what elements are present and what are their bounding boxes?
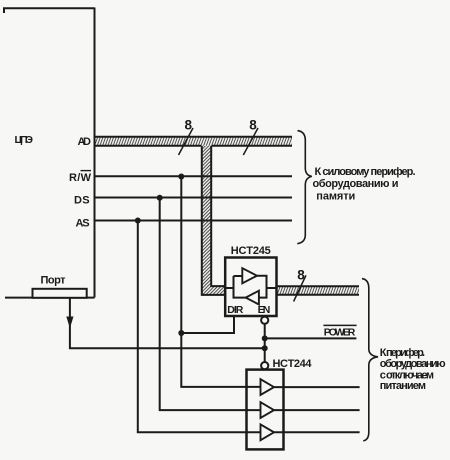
svg-text:питанием: питанием: [380, 380, 426, 392]
CPU bottom edge: [5, 297, 95, 299]
junction dot AS: [135, 218, 141, 224]
buffer 3 triangle: [261, 424, 275, 440]
bus width marker 8 (output slash): [294, 275, 306, 301]
svg-text:8: 8: [249, 117, 257, 132]
brace: to power peripherals group: [297, 131, 312, 244]
junction dot DIR / R/W drop: [178, 330, 184, 336]
junction dot POWER / EN: [262, 335, 268, 341]
svg-text:POWER: POWER: [324, 327, 356, 339]
R/W line: [95, 175, 293, 177]
R/W drop wire to DIR and buffer 1: [181, 177, 260, 387]
svg-text:AS: AS: [76, 217, 90, 229]
HCT245 box U1: [225, 258, 276, 317]
svg-text:оборудованию и: оборудованию и: [313, 178, 399, 190]
svg-text:К силовому перифер.: К силовому перифер.: [315, 166, 416, 178]
brace: to switched-power peripherals group: [362, 279, 378, 441]
port output wire (down, arrow, then right to EN): [70, 298, 265, 348]
buffer 2 output line: [274, 409, 360, 411]
junction dot R/W: [178, 174, 184, 180]
svg-text:8: 8: [297, 267, 305, 282]
svg-text:R/W: R/W: [69, 172, 92, 184]
DS drop wire to buffer 2: [160, 198, 261, 411]
svg-text:памяти: памяти: [316, 191, 355, 203]
output bus 8-bit from HCT245: [277, 286, 360, 294]
buffer 1 triangle: [261, 379, 275, 395]
AD bus (8-bit address/data bus): [95, 137, 293, 146]
svg-text:ЦПЭ: ЦПЭ: [15, 134, 34, 146]
CPU top edge: [4, 8, 95, 13]
svg-text:EN: EN: [258, 304, 271, 316]
vertical bus drop with elbow stub to HCT245: [202, 146, 225, 295]
HCT245 transceiver symbol: loop wires: [225, 276, 276, 298]
HCT244 enable bubble (active low): [261, 362, 268, 369]
POWER line: [265, 337, 357, 339]
buffer 2 triangle: [261, 402, 275, 418]
svg-text:HCT244: HCT244: [273, 358, 313, 370]
DS line: [95, 197, 293, 199]
EN pin bubble (active low): [261, 317, 268, 324]
HCT244 box U2: [247, 370, 284, 450]
port box: [33, 289, 87, 298]
arrowhead on port wire: [66, 317, 73, 329]
EN wire down: [264, 324, 266, 362]
HCT245 buffer triangle (left-pointing): [246, 291, 259, 305]
svg-text:оборудованию: оборудованию: [380, 358, 446, 370]
junction dot DS: [157, 195, 163, 201]
buffer 1 output line: [274, 386, 360, 388]
buffer 3 output line: [274, 431, 360, 433]
bus width marker 8 (left slash): [179, 128, 194, 155]
AS drop wire to buffer 3: [138, 221, 261, 433]
DIR wire to R/W drop: [181, 316, 234, 333]
AS line: [95, 220, 293, 222]
svg-text:HCT245: HCT245: [231, 245, 271, 257]
svg-text:8: 8: [185, 117, 193, 132]
junction dot port line / EN: [262, 345, 268, 351]
svg-text:DIR: DIR: [227, 304, 243, 316]
bus width marker 8 (right slash): [243, 128, 258, 155]
svg-text:DS: DS: [74, 195, 90, 207]
CPU right edge: [94, 8, 96, 298]
svg-text:AD: AD: [78, 136, 92, 148]
HCT245 buffer triangle (right-pointing): [242, 268, 257, 283]
svg-text:Порт: Порт: [41, 275, 67, 287]
